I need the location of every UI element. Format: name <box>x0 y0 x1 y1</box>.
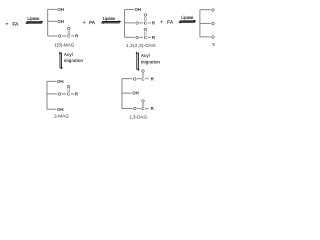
svg-text:+: + <box>5 23 8 28</box>
svg-text:O: O <box>141 69 145 74</box>
svg-text:O: O <box>67 26 71 31</box>
svg-text:migration: migration <box>141 59 161 64</box>
wire acyl migration arrow 1 <box>59 51 63 70</box>
svg-text:OH: OH <box>57 107 64 112</box>
svg-text:2-MAG: 2-MAG <box>54 114 69 119</box>
molecule 1,3-DAG <box>122 69 155 112</box>
wire equilibrium arrows 2 <box>101 20 121 24</box>
svg-text:Lipase: Lipase <box>103 16 116 21</box>
svg-text:OH: OH <box>57 19 64 24</box>
svg-text:O: O <box>58 92 62 97</box>
molecule 1(3)-MAG <box>48 7 79 39</box>
svg-text:+: + <box>83 21 86 26</box>
svg-text:1,2(2,3)-DAG: 1,2(2,3)-DAG <box>126 43 156 48</box>
wire equilibrium arrows 3 <box>179 20 197 24</box>
wire acyl migration arrow 2 <box>136 51 140 71</box>
svg-text:O: O <box>141 98 145 103</box>
svg-text:1(3)-MAG: 1(3)-MAG <box>54 43 75 48</box>
svg-text:Acyl: Acyl <box>141 53 150 58</box>
svg-text:TAG: TAG <box>212 42 215 47</box>
svg-text:O: O <box>144 27 148 32</box>
svg-text:OH: OH <box>57 79 64 84</box>
svg-text:FA: FA <box>89 20 96 26</box>
svg-text:Lipase: Lipase <box>181 15 194 20</box>
svg-text:1,3-DAG: 1,3-DAG <box>129 114 147 119</box>
svg-text:Acyl: Acyl <box>64 52 73 57</box>
svg-text:FA: FA <box>167 20 174 26</box>
svg-text:Lipase: Lipase <box>27 16 40 21</box>
svg-text:O: O <box>133 76 137 81</box>
wire equilibrium arrows 1 <box>25 21 43 25</box>
molecule TAG (cut off at right edge) <box>200 7 215 39</box>
svg-text:OH: OH <box>57 7 64 12</box>
svg-text:O: O <box>211 7 215 12</box>
svg-text:O: O <box>135 21 139 26</box>
svg-text:migration: migration <box>64 58 84 63</box>
svg-text:O: O <box>67 84 71 89</box>
svg-text:O: O <box>58 34 62 39</box>
svg-text:O: O <box>144 13 148 18</box>
svg-text:+: + <box>160 21 163 26</box>
svg-text:OH: OH <box>132 91 139 96</box>
molecule 2-MAG <box>47 79 79 112</box>
molecule 1,2(2,3)-DAG <box>125 7 156 40</box>
svg-text:O: O <box>135 35 139 40</box>
svg-text:O: O <box>211 21 215 26</box>
svg-text:O: O <box>133 106 137 111</box>
svg-text:O: O <box>211 35 215 40</box>
svg-text:OH: OH <box>135 7 142 12</box>
svg-text:FA: FA <box>12 22 19 28</box>
